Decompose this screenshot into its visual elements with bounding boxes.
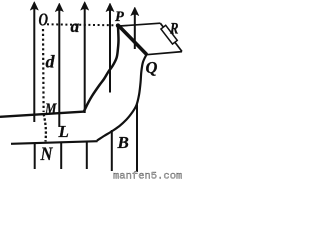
resistor R box [161, 25, 177, 44]
horizontal surface line through N [11, 141, 98, 144]
conducting rod PQ [119, 26, 147, 55]
svg-text:B: B [117, 133, 129, 152]
field line B1 arrowhead [30, 2, 38, 11]
rail P to top corner [120, 23, 161, 26]
svg-text:R: R [169, 21, 179, 38]
svg-text:d: d [46, 52, 56, 72]
field line B4 arrowhead [106, 3, 114, 12]
svg-text:Q: Q [146, 58, 158, 77]
svg-text:a: a [71, 16, 80, 36]
field line B5 lower segment [136, 104, 138, 172]
field line B3 arrowhead [81, 2, 89, 11]
dotted line O down to M (distance d) [42, 29, 45, 112]
field line B2 lower segment [60, 142, 62, 169]
curve upper (ramp edge from P to M line) [84, 26, 119, 111]
field line B2 arrowhead [55, 3, 63, 12]
point P dot [116, 23, 120, 27]
field line B3 lower segment [86, 142, 88, 169]
field line B5 arrowhead [131, 7, 139, 16]
field line B4 shaft [109, 9, 111, 93]
field line B1 shaft [33, 8, 35, 122]
rail Q to right corner (bottom edge) [147, 52, 183, 55]
horizontal surface line through M [0, 112, 85, 117]
field line B5 shaft [134, 13, 136, 49]
svg-text:P: P [115, 9, 124, 25]
svg-text:manfen5.com: manfen5.com [113, 170, 182, 180]
field line B1 lower segment [34, 144, 36, 169]
dotted trajectory M to N [44, 114, 46, 142]
dotted line O to P (distance a) [47, 24, 117, 25]
field line B2 shaft [58, 9, 60, 127]
field line B3 shaft [84, 8, 86, 113]
svg-text:L: L [58, 122, 69, 141]
field line B4 lower segment [111, 130, 113, 171]
svg-text:M: M [44, 101, 57, 118]
svg-text:N: N [40, 144, 54, 165]
right edge with resistor (top corner to right corner) [160, 23, 182, 51]
curve lower (ramp edge from Q to N line) [97, 55, 147, 141]
svg-text:O: O [39, 9, 49, 29]
